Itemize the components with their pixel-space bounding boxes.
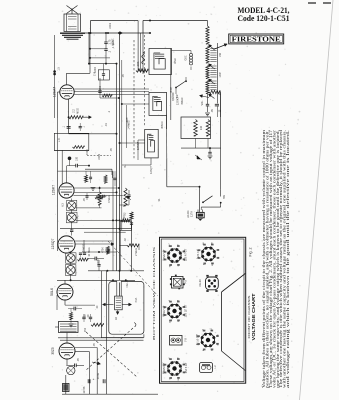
resistor R23 in shield bbox=[73, 146, 85, 149]
output transformer T4 bbox=[115, 296, 123, 310]
arrow voice coil right bbox=[122, 303, 131, 306]
socket CE-30 oscillator bbox=[198, 275, 219, 292]
svg-text:.05: .05 bbox=[93, 343, 96, 347]
wire V4 plate top bbox=[64, 280, 66, 284]
svg-text:100: 100 bbox=[76, 156, 79, 161]
capacitor C1 bbox=[104, 32, 107, 49]
bus heater line bbox=[113, 64, 117, 271]
wire bottom rail bbox=[62, 393, 158, 395]
wire lamp column bbox=[70, 199, 73, 236]
svg-text:OSC: OSC bbox=[186, 55, 188, 60]
svg-text:ON-OFF: ON-OFF bbox=[173, 92, 175, 101]
svg-text:Code 120-1-C51: Code 120-1-C51 bbox=[238, 14, 290, 23]
svg-text:2 MEG: 2 MEG bbox=[135, 248, 138, 256]
resistor R13b bbox=[95, 196, 103, 199]
socket V2 12SK7 bbox=[197, 244, 219, 265]
label V5 35Z5 bbox=[51, 347, 55, 354]
IF transformer box T3 bbox=[145, 129, 159, 158]
svg-text:150: 150 bbox=[84, 327, 87, 332]
resistor R6 divider c bbox=[206, 65, 209, 79]
tube V1 12SA7 bbox=[60, 85, 74, 99]
title text MODEL 4-C-21 bbox=[238, 6, 290, 15]
wire avc long bbox=[57, 118, 59, 160]
wire antenna to grid bus bbox=[81, 32, 150, 34]
resistor R12 bbox=[104, 175, 107, 183]
wire V4 cathode bbox=[65, 300, 95, 305]
chart label FRONT OF CHASSIS bbox=[247, 296, 251, 339]
label R3 bbox=[136, 61, 140, 66]
chart trapezoid front-of-chassis bbox=[222, 274, 246, 371]
capacitor C4 bbox=[205, 104, 210, 116]
wire y98 junction bbox=[100, 97, 120, 99]
line cord resistor R18 bbox=[55, 322, 78, 333]
component box shield bbox=[120, 222, 131, 231]
chassis hatch under loop bbox=[60, 33, 85, 39]
ground mid bbox=[91, 188, 96, 191]
pilot lamp P3 bbox=[67, 366, 75, 374]
resistor R1 AVC bbox=[69, 116, 92, 119]
speaker magnet curve bbox=[134, 323, 136, 327]
label C10 bbox=[77, 358, 80, 362]
svg-text:L.O.: L.O. bbox=[58, 137, 61, 142]
node dot top bbox=[149, 20, 151, 35]
capacitor C14 det bbox=[119, 190, 131, 205]
wire V2 top bbox=[62, 150, 66, 184]
svg-text:35Z5: 35Z5 bbox=[51, 347, 55, 354]
svg-text:.05: .05 bbox=[77, 358, 80, 362]
svg-text:.02: .02 bbox=[124, 238, 127, 242]
resistor R8 top bbox=[209, 90, 221, 117]
bus AVC line bbox=[121, 60, 123, 230]
svg-text:P.M.: P.M. bbox=[135, 297, 138, 302]
power plug bbox=[196, 210, 204, 221]
wires V1 to IF box bbox=[74, 89, 149, 95]
wire below speaker bbox=[101, 271, 143, 338]
tube V4 50L6GT bbox=[57, 284, 73, 300]
svg-text:456KC: 456KC bbox=[181, 97, 184, 105]
label C9 bbox=[84, 314, 91, 318]
label R1 2.2MEG bbox=[73, 108, 80, 114]
wire candohm bottom bbox=[181, 139, 221, 150]
arrow tap 3 bbox=[209, 79, 215, 84]
lamp P2 bbox=[66, 212, 77, 223]
arrow tap 4 bbox=[209, 94, 215, 99]
svg-text:GRID: GRID bbox=[94, 67, 97, 73]
svg-text:P B: P B bbox=[185, 280, 188, 284]
wire divider bottom bbox=[207, 94, 209, 105]
wire T2 to V1 bbox=[148, 94, 150, 96]
wire x106 col bbox=[106, 271, 108, 394]
capacitor C5 bbox=[208, 148, 213, 159]
wire y195 bbox=[74, 195, 123, 197]
wires V3 bbox=[75, 241, 114, 245]
diode arrow bbox=[195, 155, 202, 160]
misc value labels bbox=[83, 22, 173, 393]
label T1 OSC bbox=[173, 58, 177, 64]
svg-text:150K: 150K bbox=[86, 149, 89, 155]
ground det bbox=[105, 250, 110, 253]
capacitor C16 bbox=[97, 260, 100, 271]
trimmer X1 bbox=[66, 253, 76, 263]
capacitor C13 screen bbox=[98, 78, 112, 98]
gang capacitor link bbox=[134, 35, 145, 160]
padder box bbox=[98, 64, 109, 80]
trimmer X2 bbox=[65, 265, 76, 276]
tube V2 12SK7 bbox=[59, 183, 74, 198]
label field 32 bbox=[114, 317, 118, 320]
arrowhead grid wire bbox=[118, 31, 122, 34]
wires V5 right bbox=[75, 348, 97, 395]
resistor R10 in candohm bbox=[206, 120, 210, 137]
svg-text:1 MEG: 1 MEG bbox=[112, 40, 115, 48]
label C2 bbox=[109, 50, 112, 53]
wire left down bbox=[65, 375, 67, 394]
svg-text:VOLTAGE CHART: VOLTAGE CHART bbox=[251, 293, 256, 341]
resistor R7 divider d bbox=[206, 80, 209, 94]
wires V2 right bbox=[74, 187, 120, 193]
FIRESTONE brand box bbox=[229, 34, 284, 44]
svg-text:.0002: .0002 bbox=[98, 153, 101, 160]
label trimmer bbox=[76, 156, 79, 161]
wire y169 bbox=[85, 169, 112, 175]
wire box chain bbox=[167, 49, 171, 130]
capacitor C19 bbox=[79, 253, 82, 257]
wire grid rail y64 bbox=[89, 63, 118, 65]
wire y228 bbox=[60, 228, 132, 233]
resistor R5 divider b bbox=[206, 46, 209, 63]
svg-text:CE-30: CE-30 bbox=[198, 279, 202, 287]
wire box3 bottom bbox=[122, 158, 151, 165]
svg-text:12SA7 GT: 12SA7 GT bbox=[163, 249, 166, 261]
capacitor C7b bbox=[114, 171, 117, 186]
capacitor C20 bbox=[83, 253, 86, 254]
svg-text:12SK7: 12SK7 bbox=[52, 185, 56, 196]
arrow rectifier bbox=[92, 362, 101, 365]
capacitor C24 bbox=[82, 314, 85, 322]
svg-text:250K: 250K bbox=[123, 215, 126, 221]
chart label Fig 2 bbox=[249, 248, 253, 257]
capacitor C21 line bbox=[53, 67, 60, 76]
wire x166 up bbox=[166, 115, 168, 158]
capacitor C23 bbox=[79, 123, 86, 131]
wire y133 bbox=[69, 133, 118, 135]
resistor R21 on bus bbox=[130, 212, 133, 222]
bus screen line bbox=[131, 223, 133, 271]
switch S1 bbox=[201, 185, 221, 210]
lamp P1 bbox=[67, 200, 77, 210]
svg-text:+: + bbox=[93, 378, 95, 382]
socket ballast plug bbox=[170, 275, 188, 290]
svg-text:OSC: OSC bbox=[170, 87, 173, 93]
capacitor C2 bbox=[104, 49, 107, 65]
svg-text:and voltage rating which is kn: and voltage rating which is known to be … bbox=[286, 130, 290, 388]
capacitor C15 coupling bbox=[88, 257, 104, 261]
capacitor C9 tone bbox=[68, 307, 82, 311]
coil L2 slug bbox=[142, 49, 145, 75]
page edge line bbox=[300, 0, 334, 400]
wire top rail right bbox=[143, 21, 172, 34]
label S2 bbox=[173, 92, 179, 101]
svg-text:FIRESTONE: FIRESTONE bbox=[232, 36, 281, 44]
labels divider bbox=[211, 52, 222, 112]
wire y150 bbox=[54, 150, 89, 152]
resistor R20 bbox=[98, 187, 101, 208]
socket V1 12SA7 bbox=[163, 245, 188, 266]
resistor R16 cathode bbox=[69, 309, 74, 327]
wire top to divider bbox=[172, 21, 208, 27]
wire V1 cathode down bbox=[68, 99, 70, 134]
wire y50 osc tap bbox=[172, 50, 189, 52]
svg-text:.05: .05 bbox=[122, 74, 125, 78]
socket V5 35Z5 bbox=[163, 358, 188, 379]
wire grid rail y280 bbox=[57, 279, 135, 281]
svg-text:456KC: 456KC bbox=[161, 121, 164, 129]
svg-text:VOL: VOL bbox=[201, 100, 204, 106]
shield box bbox=[54, 133, 89, 150]
wire y57 bbox=[90, 57, 110, 59]
svg-text:Fig. 2: Fig. 2 bbox=[249, 248, 253, 257]
svg-text:117Z6: 117Z6 bbox=[83, 386, 86, 394]
resistor R14 plate bbox=[127, 244, 139, 250]
capacitor C25 bbox=[89, 314, 92, 322]
ballast element hatch bbox=[210, 49, 216, 90]
wire det out bbox=[83, 240, 85, 252]
arrow tap 2 bbox=[209, 64, 215, 69]
resistor R3 bbox=[136, 69, 148, 72]
label R15 bbox=[102, 247, 105, 253]
svg-text:10 MEG: 10 MEG bbox=[88, 247, 91, 256]
wire trimmer column bbox=[70, 251, 72, 280]
svg-text:FIELD: FIELD bbox=[126, 280, 129, 287]
svg-text:3 MEG: 3 MEG bbox=[108, 195, 111, 203]
label V4 50L6GT bbox=[50, 288, 54, 296]
capacitor C10 bbox=[66, 364, 84, 368]
resistor R15 bbox=[106, 246, 109, 254]
wire osc pair bbox=[138, 21, 146, 71]
capacitor C17 bbox=[103, 194, 108, 198]
wire V4 grid bbox=[56, 295, 58, 310]
wire to switch bbox=[166, 158, 168, 187]
loop antenna L1 bbox=[64, 14, 81, 32]
svg-text:.01: .01 bbox=[105, 123, 108, 127]
socket dial lamp block bbox=[170, 336, 188, 346]
dashed pointer line a bbox=[86, 332, 137, 377]
candohm resistor box bbox=[181, 117, 211, 139]
svg-text:2.2: 2.2 bbox=[73, 109, 76, 113]
wire chain x220 down bbox=[220, 93, 222, 185]
trimmer T5 bbox=[68, 157, 72, 166]
capacitor C22 cathode bbox=[63, 125, 71, 128]
wire y252 bbox=[82, 251, 117, 253]
socket speaker plug bbox=[200, 363, 218, 373]
svg-text:20K: 20K bbox=[136, 61, 140, 66]
arrow voice coil left bbox=[103, 303, 114, 306]
wire top rail left bbox=[91, 21, 139, 34]
IF transformer box T2 bbox=[149, 92, 167, 115]
resistor R17 22ohm bbox=[121, 219, 130, 222]
filter cap C12 bbox=[63, 384, 70, 392]
wire bus down bbox=[119, 230, 121, 270]
voltage chart frame bbox=[160, 237, 246, 383]
chart label VOLTAGE CHART bbox=[251, 293, 256, 341]
label switch bbox=[223, 194, 226, 199]
svg-text:.006: .006 bbox=[97, 259, 100, 264]
resistor R19 volume pot bbox=[124, 188, 131, 206]
wire right col x89 bbox=[88, 352, 90, 395]
capacitor C3 osc bbox=[88, 32, 90, 65]
label R17 bbox=[123, 212, 127, 215]
arrow volume wiper bbox=[200, 95, 210, 98]
svg-text:7-B: 7-B bbox=[185, 338, 188, 342]
wire V1 grid top bbox=[67, 33, 92, 85]
dashed pointer line b bbox=[85, 328, 133, 371]
socket V3 12SQ7 bbox=[163, 301, 188, 322]
wire box2 to bus bbox=[119, 103, 150, 144]
wire plug rail bbox=[167, 186, 201, 213]
wire y207 bbox=[76, 207, 102, 209]
tube V5 35Z5 bbox=[59, 343, 75, 359]
label V1 12SA7 bbox=[53, 87, 57, 97]
resistor R11 bbox=[85, 171, 88, 182]
resistor R4 divider a bbox=[206, 26, 209, 44]
svg-text:OSC: OSC bbox=[173, 58, 177, 64]
capacitor C18 on bus bbox=[130, 223, 133, 229]
svg-text:12SQ7: 12SQ7 bbox=[150, 166, 153, 174]
tube V3 12SQ7 bbox=[58, 236, 75, 253]
capacitor C7 bbox=[89, 171, 92, 183]
label shield bbox=[58, 137, 61, 142]
svg-text:B+: B+ bbox=[124, 164, 127, 168]
capacitor C8b bbox=[86, 193, 89, 200]
arrow to FIRESTONE box bbox=[215, 3, 332, 49]
wire V1 grid left bbox=[58, 92, 60, 118]
svg-text:117V: 117V bbox=[191, 211, 194, 217]
osc coil box T1 bbox=[149, 49, 172, 75]
voltage note paragraph bbox=[262, 129, 290, 388]
svg-text:14W: 14W bbox=[219, 72, 222, 78]
label plug 117V bbox=[187, 210, 194, 218]
bus B+ line bbox=[119, 33, 121, 296]
wire osc feedback bbox=[142, 33, 144, 49]
speaker outline bbox=[109, 281, 144, 335]
svg-text:12SQ7: 12SQ7 bbox=[51, 239, 55, 250]
labels lamps bbox=[62, 203, 80, 219]
label R13 bbox=[83, 244, 86, 252]
socket V4 50L6 right bbox=[197, 330, 219, 351]
wire x126 seg bbox=[127, 105, 131, 148]
arrow tap 1 bbox=[209, 45, 215, 51]
coil L3 tap bbox=[189, 51, 193, 71]
svg-text:50L6: 50L6 bbox=[50, 288, 54, 296]
svg-text:.0001: .0001 bbox=[109, 22, 112, 29]
svg-text:250: 250 bbox=[99, 85, 102, 90]
svg-text:150: 150 bbox=[219, 52, 222, 57]
label T3 IF bbox=[136, 141, 140, 150]
wire tap rail bbox=[215, 43, 219, 117]
svg-text:BOTTOM VIEW OF CHASSIS: BOTTOM VIEW OF CHASSIS bbox=[152, 247, 156, 340]
resistor R9 in candohm bbox=[194, 120, 198, 137]
label padder bbox=[94, 72, 97, 77]
title text Code 120-1-C51 bbox=[238, 14, 290, 23]
labels candohm bbox=[200, 125, 203, 130]
label V2 12SK7 bbox=[52, 185, 56, 196]
svg-text:140: 140 bbox=[200, 125, 203, 130]
label V3 12SQ7 bbox=[51, 239, 55, 250]
label volume bbox=[201, 100, 204, 106]
wire det diode bbox=[138, 140, 145, 160]
svg-text:.05: .05 bbox=[110, 148, 113, 152]
antenna bbox=[67, 6, 78, 15]
wire y171 bbox=[58, 171, 113, 178]
label T2 456KC bbox=[176, 96, 185, 105]
socket voltage figures bbox=[163, 242, 220, 381]
wire y220 bbox=[76, 219, 132, 221]
capacitor C6 bbox=[67, 164, 90, 168]
double rail y338 bbox=[58, 338, 144, 340]
wire y270 speaker rail bbox=[88, 270, 144, 272]
resistor R22 bbox=[78, 258, 89, 261]
capacitor C11 electrolytic bbox=[88, 378, 105, 384]
svg-text:MEG: MEG bbox=[77, 108, 80, 114]
wire y245 bbox=[120, 244, 128, 246]
wire y48 bbox=[90, 48, 106, 50]
dashed shield line bbox=[87, 155, 111, 157]
dashed pointer line c bbox=[108, 241, 158, 296]
svg-text:30-40: 30-40 bbox=[97, 372, 100, 379]
svg-text:AC-DC: AC-DC bbox=[187, 210, 190, 218]
wire left col bbox=[57, 160, 59, 251]
label C1 bbox=[109, 38, 115, 45]
svg-text:AVC: AVC bbox=[126, 117, 129, 122]
wire V5 down bbox=[66, 333, 68, 366]
resistor R24 bbox=[91, 323, 104, 326]
arrow field down bbox=[116, 310, 119, 314]
label L3 bbox=[186, 55, 188, 60]
svg-text:.05: .05 bbox=[83, 198, 86, 202]
left rail x54 bbox=[54, 35, 56, 118]
label BOTTOM VIEW OF CHASSIS bbox=[152, 247, 156, 340]
wave switch S2 bbox=[175, 77, 187, 94]
